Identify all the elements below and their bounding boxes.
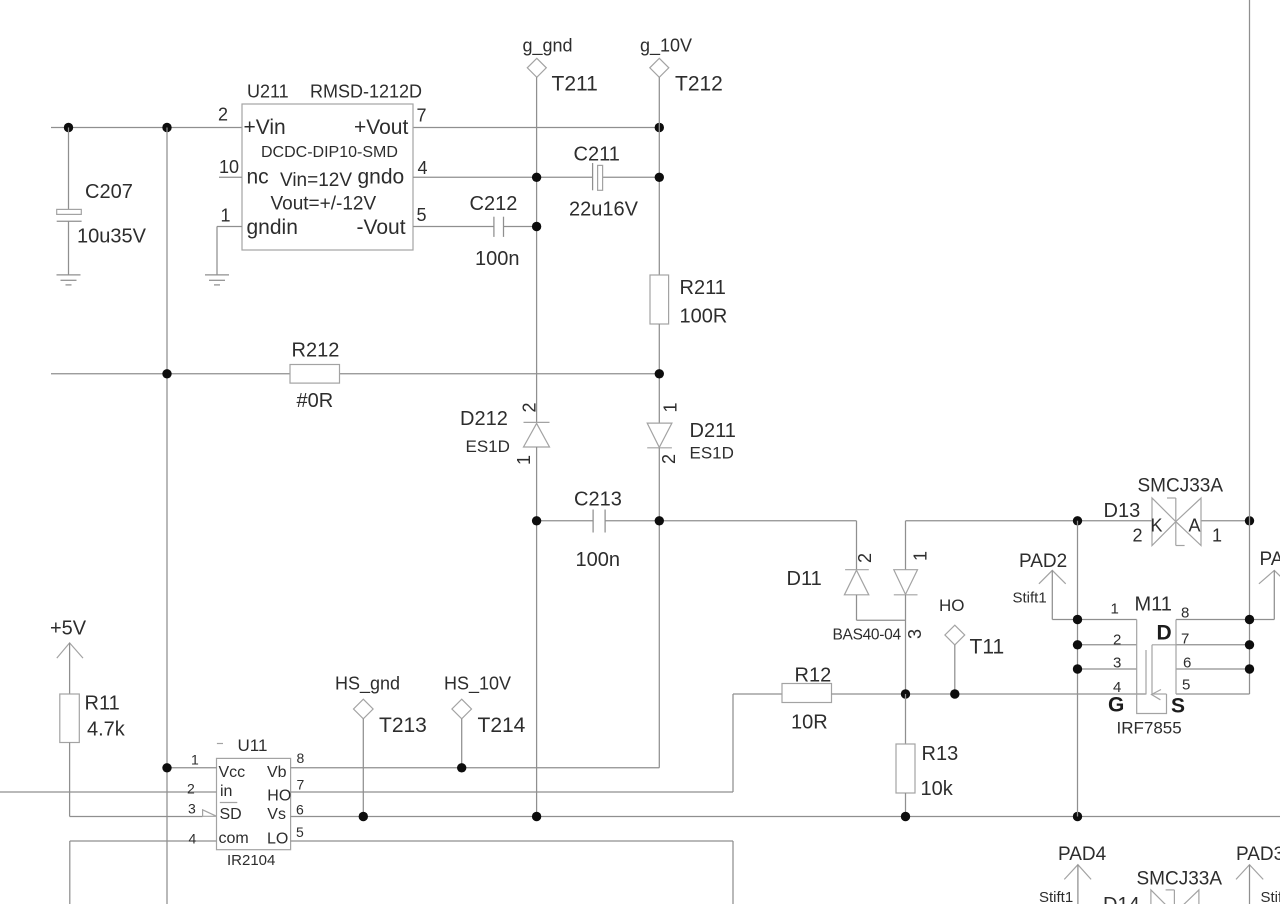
- TVS diode D14 SMCJ33A (partially visible at bottom): [1103, 869, 1222, 904]
- svg-text:C211: C211: [574, 144, 620, 166]
- node: junction on row A at g_10V column: [655, 123, 664, 132]
- wire: main left vertical bus x=167: [166, 128, 168, 904]
- svg-text:R11: R11: [85, 693, 120, 715]
- wire: right vertical x=1249.5 from top to M11 pin 5: [1249, 0, 1251, 694]
- pin 1 wire U211 (gndin): [217, 226, 242, 228]
- svg-text:3: 3: [188, 801, 196, 817]
- resistor R12 10R: [782, 665, 832, 734]
- svg-text:IRF7855: IRF7855: [1117, 719, 1182, 738]
- node: Vs at M11 left bus column: [1073, 812, 1082, 821]
- wire: g_10V vertical column x=659.3 from diamond to R211: [658, 77, 660, 275]
- svg-text:#0R: #0R: [297, 390, 334, 412]
- svg-text:SMCJ33A: SMCJ33A: [1137, 869, 1223, 890]
- svg-text:2: 2: [1113, 632, 1121, 649]
- svg-text:2: 2: [1133, 526, 1143, 546]
- svg-text:ES1D: ES1D: [466, 437, 510, 456]
- node: M11 pin6 at right vertical: [1245, 664, 1254, 673]
- svg-text:HS_10V: HS_10V: [444, 674, 511, 695]
- wire: g_gnd vertical column x=536.5 upper part: [536, 77, 538, 422]
- node: row B at g_gnd column: [532, 173, 541, 182]
- node: Vcc at main vertical: [162, 763, 171, 772]
- testpoint T212 g_10V: [640, 36, 723, 96]
- svg-text:7: 7: [1181, 631, 1189, 648]
- resistor R11 4.7k: [60, 693, 126, 743]
- wire: row D (R212 net) left segment: [51, 373, 290, 375]
- U11 pin 7 wire (HO): [291, 791, 733, 793]
- wire: HO riser from U11 pin 7 up to R12: [732, 694, 734, 792]
- svg-text:5: 5: [417, 205, 427, 225]
- svg-text:g_10V: g_10V: [640, 36, 692, 57]
- node: M11 pin7 at right vertical: [1245, 640, 1254, 649]
- MOSFET M11 pin wires right: [1176, 619, 1250, 621]
- svg-text:K: K: [1151, 516, 1163, 536]
- svg-text:Stift1: Stift1: [1013, 590, 1047, 607]
- svg-text:R212: R212: [292, 340, 340, 362]
- svg-text:2: 2: [187, 781, 195, 797]
- pad flag PAD2 Stift1: [1013, 551, 1078, 620]
- svg-text:10k: 10k: [921, 778, 954, 800]
- wire: gndo row B: [413, 176, 593, 178]
- svg-text:1: 1: [660, 402, 680, 412]
- pad flag PAD1 at right edge: [1250, 549, 1280, 620]
- U11 pin 1 wire (Vcc): [167, 767, 217, 769]
- U11 pin 6 wire (Vs) full row to right edge: [291, 816, 1280, 818]
- svg-text:PA: PA: [1260, 549, 1280, 570]
- svg-text:in: in: [220, 783, 232, 800]
- U11 pin 4 wire (com): [70, 840, 217, 842]
- svg-text:RMSD-1212D: RMSD-1212D: [310, 82, 422, 102]
- svg-text:com: com: [219, 830, 249, 847]
- svg-text:M11: M11: [1135, 594, 1172, 616]
- svg-text:T211: T211: [552, 73, 598, 96]
- svg-text:Stift: Stift: [1261, 889, 1280, 904]
- svg-text:1: 1: [910, 551, 930, 561]
- svg-text:2: 2: [659, 454, 679, 464]
- capacitor C213 100n: [574, 489, 622, 572]
- svg-text:100n: 100n: [576, 549, 621, 571]
- svg-text:T212: T212: [675, 73, 723, 96]
- node: row B at g_10V column: [655, 173, 664, 182]
- svg-text:Stift1: Stift1: [1039, 889, 1073, 904]
- svg-text:ES1D: ES1D: [690, 444, 734, 463]
- svg-text:1: 1: [514, 455, 534, 465]
- node: row I at D11 pin 3: [901, 689, 910, 698]
- resistor R13 10k: [896, 694, 958, 817]
- svg-text:S: S: [1171, 695, 1185, 718]
- svg-text:1: 1: [221, 206, 231, 226]
- svg-text:Vout=+/-12V: Vout=+/-12V: [271, 194, 377, 215]
- svg-text:22u16V: 22u16V: [569, 199, 639, 221]
- testpoint T11 HO: [939, 596, 1004, 694]
- wire: R11 bottom to SD row: [69, 743, 71, 817]
- capacitor C207: [57, 128, 147, 275]
- diode D211 ES1D: [647, 402, 736, 464]
- svg-text:nc: nc: [247, 166, 269, 189]
- svg-text:Vs: Vs: [267, 806, 286, 823]
- node: row I at T11: [950, 689, 959, 698]
- testpoint T211 g_gnd: [523, 36, 598, 96]
- svg-text:g_gnd: g_gnd: [523, 36, 573, 57]
- resistor R212 #0R: [290, 340, 340, 413]
- U11 pin 2 wire (in) from left edge: [0, 791, 217, 793]
- svg-text:gndo: gndo: [358, 166, 405, 189]
- svg-text:Vcc: Vcc: [219, 764, 246, 781]
- wire: row D right segment: [340, 373, 660, 375]
- resistor R211 100R: [650, 275, 727, 328]
- svg-text:C212: C212: [470, 193, 518, 215]
- MOSFET M11 IRF7855 pin wires left: [1078, 619, 1137, 621]
- node: row E at g_10V column: [655, 516, 664, 525]
- svg-text:D14: D14: [1103, 894, 1140, 904]
- node: Vs at g_gnd column: [532, 812, 541, 821]
- svg-text:D11: D11: [787, 568, 822, 590]
- svg-text:4: 4: [418, 158, 428, 178]
- svg-text:2: 2: [855, 553, 875, 563]
- svg-text:1: 1: [1111, 601, 1119, 618]
- node: junction on row A at C207: [64, 123, 73, 132]
- wire: gate net row I from R12 to M11 gate: [832, 693, 1147, 695]
- svg-text:HS_gnd: HS_gnd: [335, 674, 400, 695]
- svg-text:+5V: +5V: [50, 618, 87, 640]
- svg-text:+Vin: +Vin: [244, 116, 286, 139]
- svg-text:U11: U11: [238, 736, 268, 755]
- node: M11 pin3 at left bus: [1073, 664, 1082, 673]
- node: row E at right vertical: [1245, 516, 1254, 525]
- testpoint T214 HS_10V: [444, 674, 526, 768]
- svg-text:7: 7: [297, 777, 305, 793]
- node: row E at M11 left bus: [1073, 516, 1082, 525]
- node: Vs at T213: [359, 812, 368, 821]
- svg-text:4.7k: 4.7k: [87, 719, 126, 741]
- svg-text:10u35V: 10u35V: [77, 226, 147, 248]
- svg-text:gndin: gndin: [247, 216, 298, 239]
- node: M11 pin2 at left bus: [1073, 640, 1082, 649]
- capacitor C212 100n: [470, 193, 520, 270]
- svg-text:HO: HO: [939, 596, 965, 615]
- svg-text:10R: 10R: [791, 712, 828, 734]
- diode D212 ES1D: [460, 402, 550, 465]
- svg-text:6: 6: [296, 802, 304, 818]
- svg-text:3: 3: [905, 629, 925, 639]
- TVS diode D13 SMCJ33A: [1104, 476, 1224, 546]
- svg-text:DCDC-DIP10-SMD: DCDC-DIP10-SMD: [261, 144, 398, 161]
- ground symbol below U211 pin 1: [205, 275, 229, 285]
- wire: M11 left bus column x=1077.5: [1077, 521, 1079, 817]
- ground symbol below C207: [57, 275, 81, 285]
- svg-text:1: 1: [191, 752, 199, 768]
- power flag +5V: [50, 618, 87, 695]
- svg-text:4: 4: [189, 831, 197, 847]
- svg-text:C207: C207: [85, 181, 133, 203]
- svg-text:G: G: [1108, 694, 1124, 717]
- node: M11 pin8 at right vertical: [1245, 615, 1254, 624]
- node: row C at g_gnd column: [532, 222, 541, 231]
- svg-text:6: 6: [1183, 655, 1191, 672]
- svg-text:R13: R13: [922, 743, 959, 765]
- dual diode D11 BAS40-04 right half: [894, 521, 930, 694]
- svg-text:5: 5: [1182, 677, 1190, 694]
- wire: g_gnd column x=536.5 lower part: [536, 447, 538, 817]
- svg-text:2: 2: [218, 105, 228, 125]
- node: Vb at T214: [457, 763, 466, 772]
- svg-text:T11: T11: [970, 636, 1005, 659]
- svg-text:1: 1: [1212, 526, 1222, 546]
- svg-text:PAD2: PAD2: [1019, 551, 1067, 572]
- svg-text:T213: T213: [379, 714, 427, 737]
- svg-text:R12: R12: [795, 665, 832, 687]
- gate driver U11 IR2104: [217, 736, 292, 869]
- dual diode D11 BAS40-04 left half: [844, 521, 905, 621]
- pad flag PAD4 Stift1: [1039, 844, 1107, 904]
- svg-text:2: 2: [519, 402, 539, 412]
- svg-text:LO: LO: [267, 831, 288, 848]
- svg-text:100R: 100R: [680, 306, 728, 328]
- U11 pin 5 wire (LO): [291, 840, 733, 842]
- node: M11 pin1 at left bus: [1073, 615, 1082, 624]
- capacitor C211 22u16V: [569, 144, 639, 221]
- svg-text:10: 10: [219, 157, 239, 177]
- svg-text:BAS40-04: BAS40-04: [833, 627, 902, 644]
- node: row D at main vertical: [162, 369, 171, 378]
- testpoint T213 HS_gnd: [335, 674, 427, 817]
- node: row E at g_gnd column: [532, 516, 541, 525]
- pin 10 stub and label U211: [219, 176, 242, 178]
- U11 pin 8 wire (Vb): [291, 767, 660, 769]
- svg-text:100n: 100n: [475, 248, 520, 270]
- transistor M11 IRF7855 symbol: [1108, 594, 1191, 738]
- svg-text:A: A: [1189, 516, 1201, 536]
- svg-text:D212: D212: [460, 408, 508, 430]
- svg-text:R211: R211: [680, 277, 726, 299]
- svg-text:D211: D211: [690, 420, 736, 442]
- svg-text:SMCJ33A: SMCJ33A: [1138, 476, 1224, 497]
- pad flag PAD3 Stift1: [1236, 844, 1280, 904]
- U11 pin 3 SD inverting marker: [203, 810, 217, 817]
- svg-text:8: 8: [1181, 605, 1189, 622]
- svg-text:SD: SD: [220, 806, 242, 823]
- node: Vs at R13: [901, 812, 910, 821]
- svg-text:Vb: Vb: [267, 764, 287, 781]
- svg-text:HO: HO: [267, 788, 291, 805]
- svg-text:U211: U211: [247, 82, 289, 102]
- svg-text:8: 8: [297, 750, 305, 766]
- svg-text:7: 7: [417, 106, 427, 126]
- svg-text:5: 5: [296, 824, 304, 840]
- node: row D at g_10V column: [655, 369, 664, 378]
- DC/DC converter U211 RMSD-1212D: [242, 82, 422, 251]
- svg-text:PAD3: PAD3: [1236, 844, 1280, 865]
- wire: row E (HS supply) segments: [537, 520, 594, 522]
- wire: +12V input rail (row A) left segment: [51, 127, 242, 129]
- svg-text:PAD4: PAD4: [1058, 844, 1107, 865]
- wire: R211 bottom to row D: [658, 324, 660, 423]
- svg-text:3: 3: [1113, 655, 1121, 672]
- svg-text:+Vout: +Vout: [354, 116, 408, 139]
- svg-text:-Vout: -Vout: [357, 216, 406, 239]
- node: junction on row A at main vertical: [162, 123, 171, 132]
- svg-text:T214: T214: [478, 714, 526, 737]
- wire: +Vout rail (row A) from U211 pin 7 to g_10V column: [413, 127, 659, 129]
- svg-text:IR2104: IR2104: [227, 852, 275, 869]
- svg-text:Vin=12V: Vin=12V: [280, 170, 352, 191]
- wire: -Vout row C: [413, 226, 494, 228]
- wire: g_10V column from D211 to Vb corner: [658, 448, 660, 768]
- svg-text:C213: C213: [574, 489, 622, 511]
- svg-text:D: D: [1157, 622, 1172, 645]
- svg-text:D13: D13: [1104, 500, 1141, 522]
